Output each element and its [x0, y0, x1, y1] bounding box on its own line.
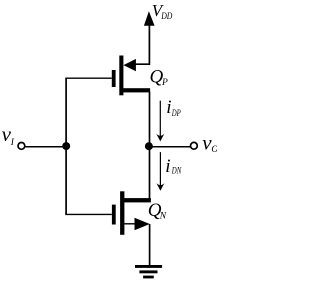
svg-text:i: i: [165, 156, 170, 177]
svg-text:N: N: [159, 212, 167, 222]
svg-text:DD: DD: [160, 11, 172, 21]
svg-text:DP: DP: [171, 108, 181, 118]
svg-text:P: P: [161, 78, 168, 88]
svg-text:DN: DN: [171, 166, 182, 176]
svg-text:O: O: [211, 145, 217, 155]
svg-text:i: i: [166, 97, 171, 118]
